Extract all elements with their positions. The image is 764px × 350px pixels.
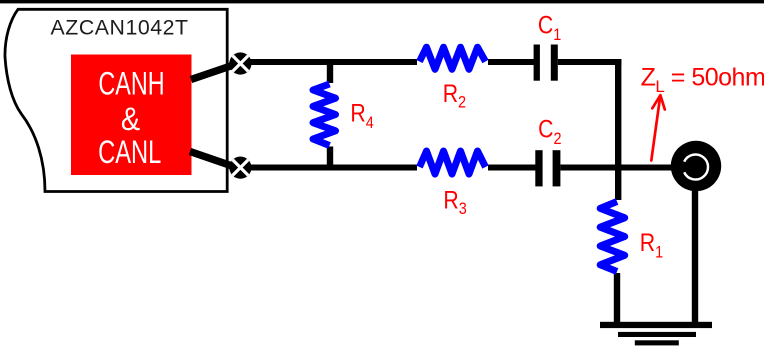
svg-text:AZCAN1042T: AZCAN1042T <box>51 16 189 40</box>
svg-text:R2: R2 <box>443 79 466 112</box>
svg-text:R1: R1 <box>640 228 663 261</box>
svg-text:&: & <box>121 101 140 137</box>
svg-text:R4: R4 <box>350 99 374 133</box>
svg-text:CANH: CANH <box>98 66 164 101</box>
svg-text:C1: C1 <box>538 11 561 44</box>
svg-text:R3: R3 <box>443 186 467 219</box>
svg-text:ZL = 50ohm: ZL = 50ohm <box>641 64 764 96</box>
svg-text:CANL: CANL <box>98 135 161 170</box>
svg-text:C2: C2 <box>538 115 561 148</box>
